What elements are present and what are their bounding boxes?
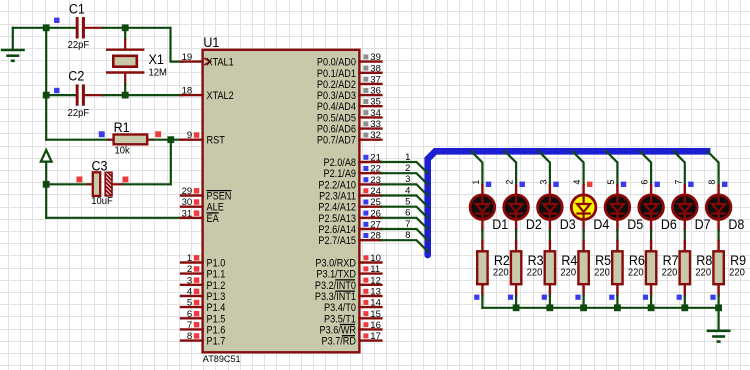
net marker C3 left <box>77 177 83 183</box>
LED D8 <box>706 185 744 232</box>
svg-text:17: 17 <box>370 331 381 342</box>
wire bus to D1 <box>471 151 482 185</box>
pin 33 (P0.6/AD6) <box>317 119 382 136</box>
wire C3 to RST net <box>123 140 171 185</box>
svg-text:3: 3 <box>187 275 192 286</box>
LED D5 <box>605 185 643 232</box>
wire R6 to rail <box>616 296 618 308</box>
LED D7 <box>673 185 711 232</box>
pin 39 (P0.0/AD0) <box>317 52 382 69</box>
svg-text:23: 23 <box>370 175 381 186</box>
svg-text:P0.7/AD7: P0.7/AD7 <box>317 135 356 147</box>
svg-text:37: 37 <box>370 74 381 85</box>
svg-text:P0.4/AD4: P0.4/AD4 <box>317 101 356 113</box>
svg-text:29: 29 <box>182 186 193 197</box>
svg-text:220: 220 <box>628 267 644 279</box>
svg-text:25: 25 <box>370 197 381 208</box>
pin 36 (P0.3/AD3) <box>317 86 382 103</box>
pin 31 (EA) <box>181 208 219 225</box>
pin 32 (P0.7/AD7) <box>317 130 382 147</box>
node rail 7 <box>715 304 722 311</box>
node rail 3 <box>580 304 587 311</box>
net marker C2 <box>54 88 59 93</box>
wire bus to D4 <box>572 151 583 185</box>
svg-text:36: 36 <box>370 86 381 97</box>
svg-text:38: 38 <box>370 63 381 74</box>
node D (crystal bottom) <box>122 92 129 99</box>
crystal X1 <box>107 28 167 95</box>
node rail 5 <box>648 304 655 311</box>
wire rail to ground <box>717 308 719 330</box>
pin 34 (P0.5/AD5) <box>317 108 382 125</box>
capacitor C2 <box>46 69 103 119</box>
svg-text:30: 30 <box>182 197 193 208</box>
svg-text:18: 18 <box>182 86 193 97</box>
ground rail <box>482 307 718 309</box>
pin 26 (P2.5/A13) <box>318 208 381 225</box>
svg-text:P2.0/A8: P2.0/A8 <box>324 157 357 169</box>
svg-text:10: 10 <box>370 253 381 264</box>
wire R4 to rail <box>549 296 551 308</box>
svg-text:C2: C2 <box>68 69 84 84</box>
wire bus entry 4 (pin 24) <box>381 185 427 206</box>
svg-text:35: 35 <box>370 97 381 108</box>
net marker R3 bottom <box>508 295 513 300</box>
svg-text:D3: D3 <box>560 217 576 232</box>
svg-text:P3.1/TXD: P3.1/TXD <box>316 269 356 281</box>
IC U1 body <box>203 35 360 365</box>
svg-text:P3.2/INT0: P3.2/INT0 <box>315 280 356 292</box>
bus (P2 to LEDs) <box>428 151 711 255</box>
wire D3 to R4 <box>549 230 551 240</box>
svg-text:P2.7/A15: P2.7/A15 <box>318 235 356 247</box>
net marker R7 bottom <box>643 295 648 300</box>
wire bus entry 5 (pin 25) <box>381 197 427 218</box>
wire R9 to rail <box>717 296 719 308</box>
ground (bottom right) <box>707 331 731 342</box>
ground (top left) <box>1 50 25 61</box>
svg-text:5: 5 <box>187 298 192 309</box>
wire C1 to XTAL1 <box>103 28 182 62</box>
svg-text:32: 32 <box>370 130 381 141</box>
LED D3 <box>538 185 576 232</box>
net marker D8 top <box>722 182 727 187</box>
net marker D1 top <box>486 182 491 187</box>
LED D1 <box>470 185 508 232</box>
pin 35 (P0.4/AD4) <box>317 97 382 114</box>
pin 37 (P0.2/AD2) <box>317 74 382 91</box>
svg-text:4: 4 <box>405 185 410 196</box>
svg-text:12: 12 <box>370 275 381 286</box>
pin 28 (P2.7/A15) <box>318 231 381 248</box>
svg-text:12M: 12M <box>149 67 167 79</box>
wire D1 to R2 <box>481 230 483 240</box>
wire ground to C1 <box>13 28 76 50</box>
svg-text:D8: D8 <box>728 217 744 232</box>
svg-text:9: 9 <box>187 130 192 141</box>
svg-text:220: 220 <box>560 267 576 279</box>
svg-text:5: 5 <box>606 180 616 185</box>
svg-text:P1.2: P1.2 <box>207 280 226 292</box>
node E (R1/C3 junction) <box>167 136 174 143</box>
svg-text:P2.6/A14: P2.6/A14 <box>318 224 356 236</box>
svg-text:1: 1 <box>187 253 192 264</box>
resistor R6 <box>612 241 645 296</box>
wire bus entry 8 (pin 28) <box>381 230 427 251</box>
svg-text:39: 39 <box>370 52 381 63</box>
svg-text:P1.7: P1.7 <box>207 336 226 348</box>
svg-text:P2.5/A13: P2.5/A13 <box>318 213 356 225</box>
LED D2 <box>504 185 542 232</box>
resistor R3 <box>511 241 544 296</box>
svg-text:6: 6 <box>640 180 650 185</box>
svg-text:R1: R1 <box>114 120 130 135</box>
pin 24 (P2.3/A11) <box>319 186 381 203</box>
svg-text:7: 7 <box>405 219 410 230</box>
svg-text:19: 19 <box>182 52 193 63</box>
net marker D5 top <box>621 182 626 187</box>
svg-text:27: 27 <box>370 220 381 231</box>
svg-text:1: 1 <box>471 180 481 185</box>
svg-text:U1: U1 <box>203 35 219 50</box>
svg-text:26: 26 <box>370 208 381 219</box>
net marker R1 left <box>99 131 105 137</box>
pin 25 (P2.4/A12) <box>318 197 381 214</box>
resistor R5 <box>578 241 611 296</box>
svg-text:P1.4: P1.4 <box>207 302 226 314</box>
wire bus entry 3 (pin 23) <box>381 174 427 195</box>
net marker R2 bottom <box>474 295 479 300</box>
svg-text:D5: D5 <box>627 217 643 232</box>
svg-text:220: 220 <box>695 267 711 279</box>
pin 5 (P1.4) <box>181 298 225 315</box>
svg-text:P2.1/A9: P2.1/A9 <box>324 168 357 180</box>
net marker D7 top <box>688 182 693 187</box>
svg-text:10k: 10k <box>115 144 131 156</box>
svg-text:P1.6: P1.6 <box>207 324 226 336</box>
wire bus to D5 <box>606 151 617 185</box>
pin 17 (P3.7/RD) <box>322 331 382 348</box>
resistor R7 <box>646 241 679 296</box>
pin 23 (P2.2/A10) <box>318 175 381 192</box>
svg-text:XTAL1: XTAL1 <box>207 57 234 69</box>
pin 21 (P2.0/A8) <box>324 153 382 170</box>
svg-text:8: 8 <box>187 331 192 342</box>
pin 11 (P3.1/TXD) <box>316 264 381 281</box>
wire D7 to R8 <box>684 230 686 240</box>
net marker D3 top <box>553 182 558 187</box>
pin 1 (P1.0) <box>181 253 225 270</box>
clock marker XTAL1 <box>204 58 210 65</box>
resistor R8 <box>680 241 713 296</box>
wire bus to D8 <box>707 151 718 185</box>
svg-text:6: 6 <box>187 309 192 320</box>
net marker C1 <box>54 18 59 23</box>
pin 22 (P2.1/A9) <box>324 164 382 181</box>
node rail 6 <box>681 304 688 311</box>
resistor R4 <box>545 241 578 296</box>
wire bus entry 1 (pin 21) <box>381 152 427 173</box>
wire R7 to rail <box>650 296 652 308</box>
node B (crystal top) <box>122 24 129 31</box>
wire D5 to R6 <box>616 230 618 240</box>
svg-text:6: 6 <box>405 208 410 219</box>
svg-text:34: 34 <box>370 108 381 119</box>
wire D6 to R7 <box>650 230 652 240</box>
svg-text:15: 15 <box>370 309 381 320</box>
pin 16 (P3.6/WR) <box>320 320 382 337</box>
net marker R5 bottom <box>575 295 580 300</box>
svg-text:4: 4 <box>572 180 582 185</box>
svg-text:P0.2/AD2: P0.2/AD2 <box>317 79 356 91</box>
svg-text:1: 1 <box>405 152 410 163</box>
svg-text:16: 16 <box>370 320 381 331</box>
net marker R1 right <box>155 131 161 137</box>
node F (power/C3 junction) <box>43 181 50 188</box>
svg-text:8: 8 <box>405 230 410 241</box>
svg-text:D1: D1 <box>492 217 508 232</box>
pin 4 (P1.3) <box>181 287 225 304</box>
wire bus to D6 <box>640 151 651 185</box>
wire bus entry 6 (pin 26) <box>381 208 427 229</box>
svg-text:7: 7 <box>673 180 683 185</box>
pin 12 (P3.2/INT0) <box>315 275 382 292</box>
wire R8 to rail <box>684 296 686 308</box>
wire R1 to RST <box>152 139 182 141</box>
svg-text:D2: D2 <box>526 217 542 232</box>
LED D4 <box>571 185 610 232</box>
pin 38 (P0.1/AD1) <box>317 63 382 80</box>
wire bus entry 2 (pin 22) <box>381 163 427 184</box>
node A (ground/C1 junction) <box>43 24 50 31</box>
svg-text:220: 220 <box>594 267 610 279</box>
svg-text:5: 5 <box>405 197 410 208</box>
node rail 1 <box>513 304 520 311</box>
net marker R9 bottom <box>710 295 715 300</box>
wire D8 to R9 <box>717 230 719 240</box>
wire power column to EA <box>46 184 182 218</box>
pin 10 (P3.0/RXD) <box>315 253 381 270</box>
pin 30 (ALE) <box>181 197 224 214</box>
svg-text:10uF: 10uF <box>91 195 113 207</box>
wire column A down <box>45 28 47 95</box>
svg-text:7: 7 <box>187 320 192 331</box>
svg-text:220: 220 <box>493 267 509 279</box>
wire bus to D2 <box>505 151 516 185</box>
net marker D2 top <box>520 182 525 187</box>
svg-text:4: 4 <box>187 287 192 298</box>
svg-text:28: 28 <box>370 231 381 242</box>
pin 19 (XTAL1) <box>181 52 234 69</box>
svg-text:PSEN: PSEN <box>207 191 232 203</box>
wire bus to D7 <box>673 151 684 185</box>
pin 18 (XTAL2) <box>181 86 234 103</box>
svg-text:C3: C3 <box>92 159 108 174</box>
pin 9 (RST) <box>181 130 225 147</box>
wire D4 to R5 <box>582 230 584 240</box>
svg-text:2: 2 <box>187 264 192 275</box>
wire column A to R1 <box>46 95 108 140</box>
pin 6 (P1.5) <box>181 309 225 326</box>
svg-text:D6: D6 <box>661 217 677 232</box>
svg-text:XTAL2: XTAL2 <box>207 90 234 102</box>
svg-text:3: 3 <box>405 174 410 185</box>
node rail 2 <box>547 304 554 311</box>
pin 8 (P1.7) <box>181 331 225 348</box>
LED D6 <box>639 185 677 232</box>
svg-text:RST: RST <box>207 135 226 147</box>
node rail 4 <box>614 304 621 311</box>
resistor R1 <box>109 120 153 156</box>
wire R5 to rail <box>582 296 584 308</box>
pin 27 (P2.6/A14) <box>318 220 381 237</box>
net marker D4 top <box>587 182 592 187</box>
capacitor C3 <box>46 159 123 207</box>
svg-text:C1: C1 <box>69 2 85 17</box>
svg-text:14: 14 <box>370 298 381 309</box>
svg-text:P1.1: P1.1 <box>207 269 226 281</box>
wire R3 to rail <box>515 296 517 308</box>
pin 29 (PSEN) <box>181 186 231 203</box>
svg-text:22pF: 22pF <box>68 39 90 51</box>
net marker R6 bottom <box>609 295 614 300</box>
svg-text:2: 2 <box>405 163 410 174</box>
svg-text:22pF: 22pF <box>68 107 90 119</box>
svg-text:11: 11 <box>370 264 380 275</box>
svg-text:2: 2 <box>505 180 515 185</box>
net marker D6 top <box>655 182 660 187</box>
power terminal (arrow) <box>41 150 52 184</box>
net marker R4 bottom <box>542 295 547 300</box>
wire D2 to R3 <box>515 230 517 240</box>
wire bus to D3 <box>539 151 550 185</box>
capacitor C1 <box>68 2 104 52</box>
svg-text:P3.4/T0: P3.4/T0 <box>324 302 356 314</box>
svg-text:P3.6/WR: P3.6/WR <box>320 324 357 336</box>
svg-text:D4: D4 <box>593 217 609 232</box>
svg-text:P0.0/AD0: P0.0/AD0 <box>317 57 356 69</box>
wire C2 to XTAL2 <box>103 94 182 96</box>
wire bus entry 7 (pin 27) <box>381 219 427 240</box>
svg-text:X1: X1 <box>149 52 164 67</box>
svg-text:31: 31 <box>182 208 193 219</box>
svg-text:P2.3/A11: P2.3/A11 <box>319 191 356 203</box>
svg-text:21: 21 <box>370 153 381 164</box>
svg-text:220: 220 <box>729 267 745 279</box>
svg-text:24: 24 <box>370 186 381 197</box>
svg-text:13: 13 <box>370 287 381 298</box>
pin 3 (P1.2) <box>181 275 225 292</box>
svg-text:EA: EA <box>207 213 220 225</box>
svg-text:3: 3 <box>539 180 549 185</box>
pin 2 (P1.1) <box>181 264 225 281</box>
svg-text:P0.5/AD5: P0.5/AD5 <box>317 112 356 124</box>
pin 14 (P3.4/T0) <box>324 298 381 315</box>
svg-text:220: 220 <box>527 267 543 279</box>
resistor R2 <box>477 241 510 296</box>
node C (C2 junction) <box>43 92 50 99</box>
svg-text:22: 22 <box>370 164 381 175</box>
svg-text:D7: D7 <box>695 217 711 232</box>
svg-text:33: 33 <box>370 119 381 130</box>
svg-text:220: 220 <box>662 267 678 279</box>
svg-text:P3.7/RD: P3.7/RD <box>322 336 357 348</box>
pin 7 (P1.6) <box>181 320 225 337</box>
net marker R8 bottom <box>677 295 682 300</box>
wire R2 to rail <box>481 296 483 308</box>
pin 15 (P3.5/T1) <box>324 309 381 326</box>
net marker C3 right <box>123 177 129 183</box>
pin 13 (P3.3/INT1) <box>315 287 382 304</box>
svg-text:8: 8 <box>707 180 717 185</box>
resistor R9 <box>713 241 746 296</box>
svg-text:AT89C51: AT89C51 <box>203 354 241 365</box>
